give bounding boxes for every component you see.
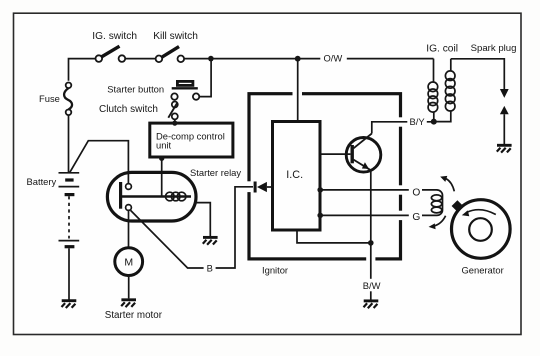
I.C. box U1	[273, 122, 321, 231]
ground: battery	[62, 301, 77, 308]
starter button S3	[171, 81, 199, 99]
node: rail junction to starter button	[208, 56, 214, 62]
wire starter motor to ground	[128, 276, 130, 299]
wire transistor collector to B/Y	[372, 122, 434, 134]
ground: spark plug	[497, 145, 512, 152]
svg-text:B: B	[207, 263, 213, 274]
svg-text:Spark plug: Spark plug	[471, 43, 517, 54]
svg-text:G: G	[412, 212, 420, 223]
svg-text:Generator: Generator	[462, 265, 504, 276]
net label B	[204, 262, 216, 275]
svg-text:IG. coil: IG. coil	[426, 43, 458, 54]
svg-text:Kill switch: Kill switch	[153, 31, 198, 42]
wire kill switch to ignition coil (O/W rail)	[184, 58, 433, 60]
wire starter button to rail	[199, 59, 211, 97]
wire clutch switch to de-comp unit	[174, 119, 176, 123]
net label O	[409, 186, 422, 198]
fuse F1	[64, 83, 72, 116]
svg-text:Battery: Battery	[27, 176, 57, 187]
wire B: relay contact to ignitor diode	[131, 187, 253, 268]
ignition coil primary L1	[428, 82, 438, 122]
net label B/W	[360, 279, 382, 292]
node on de-comp unit bottom	[159, 156, 164, 161]
ignitor box U-IGN	[249, 94, 401, 259]
svg-text:Fuse: Fuse	[39, 93, 60, 104]
diode D1	[254, 182, 272, 193]
De-comp control unit box	[150, 123, 233, 157]
pickup coil L3	[431, 195, 441, 213]
arrow above pickup coil	[440, 176, 454, 191]
svg-text:Starter button: Starter button	[107, 83, 164, 94]
transistor Q1	[322, 134, 381, 173]
wire relay to starter motor	[128, 210, 130, 247]
ground: ignitor B/W	[364, 301, 379, 308]
net label G	[409, 211, 422, 223]
starter motor M1	[115, 248, 143, 276]
svg-text:I.C.: I.C.	[286, 169, 303, 181]
starter relay K1	[107, 172, 196, 221]
ignition coil secondary L2	[436, 59, 455, 122]
node G on I.C.	[317, 213, 323, 219]
svg-text:Starter motor: Starter motor	[105, 310, 163, 321]
IG. switch S1	[96, 46, 126, 62]
node O on I.C.	[317, 187, 323, 193]
wire drop to primary coil	[433, 59, 435, 83]
node: rail junction O/W to ignitor	[295, 56, 301, 62]
svg-text:M: M	[124, 257, 133, 269]
ground: starter motor	[121, 300, 136, 307]
clutch switch S4	[168, 102, 178, 120]
wire O/W junction down to I.C.	[297, 59, 299, 121]
svg-text:unit: unit	[156, 139, 172, 150]
wire secondary coil to spark plug	[451, 59, 505, 89]
wire battery positive to starter relay contact	[70, 141, 129, 184]
svg-text:B/Y: B/Y	[410, 116, 426, 127]
wire I.C. bottom to B/W junction	[297, 232, 371, 243]
node B/W junction	[368, 240, 374, 246]
node on de-comp unit top	[172, 121, 177, 126]
svg-text:Clutch switch: Clutch switch	[99, 104, 158, 115]
net label O/W	[320, 52, 347, 65]
battery BAT	[59, 173, 80, 247]
svg-text:Starter relay: Starter relay	[190, 167, 241, 178]
net label B/Y	[407, 116, 427, 129]
wire de-comp unit to relay coil	[161, 158, 163, 196]
wire relay coil to ground	[194, 203, 210, 237]
svg-text:O/W: O/W	[324, 53, 343, 64]
svg-text:Ignitor: Ignitor	[262, 265, 288, 276]
wire IG switch to kill switch	[125, 58, 155, 60]
spark plug P1	[500, 89, 509, 144]
wire battery negative to ground	[68, 248, 70, 299]
wire O: I.C. to pickup coil	[320, 190, 443, 216]
svg-text:B/W: B/W	[363, 280, 381, 291]
svg-text:IG. switch: IG. switch	[92, 31, 137, 42]
ground: starter relay	[203, 237, 218, 244]
gaps in ignitor box edges for wire pass-through	[246, 91, 403, 262]
wire fuse to battery	[68, 115, 70, 173]
Kill switch S2	[156, 47, 185, 63]
generator G1	[452, 200, 511, 259]
node B/Y junction	[431, 119, 437, 125]
svg-text:O: O	[412, 187, 420, 198]
wire transistor emitter down	[370, 170, 372, 243]
main feed rail wire from fuse to IG switch	[69, 59, 96, 81]
wire B/W to ground	[370, 243, 372, 300]
arrow below pickup coil	[429, 216, 446, 230]
